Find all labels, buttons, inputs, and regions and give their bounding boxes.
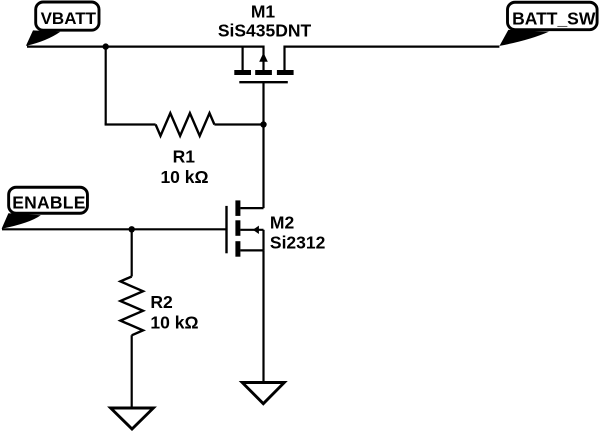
wire top rail right (M1 drain to BATT_SW) [285, 45, 500, 47]
pmos M1 [234, 46, 293, 83]
svg-text:Si2312: Si2312 [270, 233, 326, 253]
M2 drain lead [240, 207, 263, 209]
M2 body arrow (N-channel, pointing left) [253, 226, 259, 234]
M2 body-source tie [262, 230, 264, 251]
M1 drain stub [283, 46, 285, 71]
wire top rail left (VBATT to M1 source/body) [27, 45, 264, 47]
M2 source lead [240, 249, 263, 251]
wire R1 left lead [105, 123, 156, 125]
svg-text:ENABLE: ENABLE [12, 192, 85, 212]
resistor R2 zigzag [120, 277, 143, 336]
svg-text:10 kΩ: 10 kΩ [150, 312, 198, 332]
M2 source contact bar [235, 241, 240, 257]
M2 drain contact bar [235, 200, 240, 216]
wire ENABLE to M2 gate [2, 228, 227, 230]
ground symbol under R2 [111, 408, 154, 429]
node junction on top rail [103, 43, 109, 49]
wire R2 bottom lead [131, 335, 133, 408]
M2 body lead [240, 229, 263, 231]
wire node down to R2 top [131, 229, 133, 276]
svg-text:M1: M1 [251, 2, 276, 22]
net flag BATT_SW [500, 2, 598, 46]
BATT_SW flag tail [500, 30, 550, 46]
resistor R1 zigzag [156, 113, 215, 136]
ENABLE flag tail [2, 213, 41, 228]
svg-text:VBATT: VBATT [41, 9, 97, 28]
M1 gate line [239, 81, 287, 83]
M1 source stub [242, 46, 244, 71]
wire from top rail node down to R1 left [105, 47, 107, 125]
svg-text:R2: R2 [150, 292, 173, 312]
VBATT flag box [36, 2, 99, 30]
M1 body stub [262, 46, 264, 71]
node junction R1 right / M1 gate net [260, 121, 266, 127]
nmos M2 [227, 200, 264, 256]
svg-text:BATT_SW: BATT_SW [512, 8, 596, 28]
net flag VBATT [26, 2, 99, 46]
ENABLE flag box [9, 187, 88, 213]
ground symbol under M2 [242, 383, 284, 404]
svg-text:M2: M2 [270, 213, 295, 233]
wire R1 right lead [214, 123, 263, 125]
M2 body contact bar [235, 220, 240, 236]
net flag ENABLE [2, 187, 88, 228]
M1 drain contact bar [277, 70, 294, 75]
wire M2 source to ground [262, 250, 264, 382]
M1 source contact bar [234, 70, 251, 75]
M2 gate line [225, 206, 227, 253]
M1 body arrow (P-channel, pointing up) [259, 53, 268, 62]
svg-text:10 kΩ: 10 kΩ [160, 167, 208, 187]
BATT_SW flag box [508, 2, 598, 29]
svg-text:R1: R1 [173, 147, 196, 167]
M1 body contact bar [255, 70, 272, 75]
node junction ENABLE / R2 [129, 226, 135, 232]
svg-text:SiS435DNT: SiS435DNT [218, 21, 312, 41]
VBATT flag tail [26, 30, 60, 46]
wire M1 gate down to M2 drain [262, 83, 264, 208]
